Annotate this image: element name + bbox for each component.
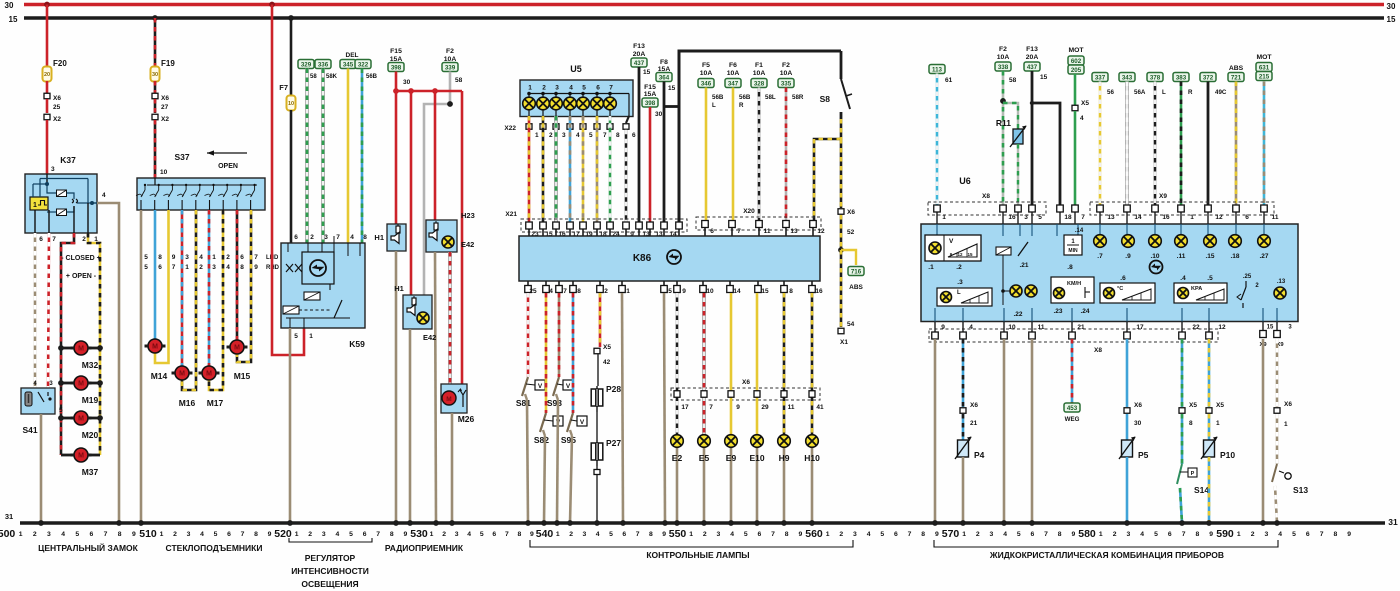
svg-text:M26: M26: [458, 414, 475, 424]
svg-text:7: 7: [709, 404, 713, 411]
svg-text:339: 339: [445, 65, 456, 72]
connector X9 top: [1090, 193, 1274, 215]
lamp module U5: [520, 64, 633, 117]
svg-text:27: 27: [161, 104, 169, 111]
svg-text:X6: X6: [742, 379, 750, 386]
svg-text:20: 20: [44, 72, 50, 78]
svg-text:11: 11: [788, 404, 795, 411]
svg-text:1: 1: [1216, 420, 1220, 427]
svg-text:L: L: [957, 290, 961, 296]
wire: [46, 81, 49, 93]
svg-text:22: 22: [1192, 324, 1200, 331]
wire F15: [649, 107, 652, 223]
wire S41 to bus: [40, 414, 43, 523]
wire F7 to K59: [290, 110, 293, 243]
warning lamp row U6: [1094, 235, 1271, 260]
svg-text:4: 4: [61, 531, 65, 538]
svg-text:6: 6: [894, 531, 898, 538]
svg-text:.14: .14: [1075, 228, 1084, 234]
wire: [841, 250, 855, 328]
wire: [1275, 486, 1277, 523]
svg-text:P28: P28: [606, 384, 621, 394]
wire U6-21 WEG: [1071, 339, 1074, 403]
svg-text:S41: S41: [22, 425, 37, 435]
pin label: [709, 404, 713, 411]
wire U5-5: [582, 116, 585, 223]
svg-text:6: 6: [363, 531, 367, 538]
svg-text:5: 5: [744, 531, 748, 538]
svg-text:56B: 56B: [739, 94, 751, 101]
wire: [962, 414, 965, 440]
svg-text:5: 5: [589, 132, 593, 139]
svg-text:1: 1: [430, 531, 434, 538]
section label windows: [166, 543, 263, 553]
svg-text:1: 1: [535, 132, 539, 139]
svg-text:6: 6: [632, 132, 636, 139]
svg-text:4: 4: [1003, 531, 1007, 538]
wire K86-2: [599, 293, 602, 347]
svg-text:5: 5: [1154, 531, 1158, 538]
svg-text:16: 16: [1162, 214, 1170, 221]
pin 4 label: [102, 192, 106, 199]
svg-text:X8: X8: [982, 193, 990, 200]
svg-text:X2: X2: [53, 116, 61, 123]
svg-text:10: 10: [160, 169, 168, 176]
svg-text:°C: °C: [1117, 286, 1123, 292]
wire: [1180, 488, 1182, 523]
code 378 wire: [1147, 73, 1166, 208]
svg-text:4: 4: [467, 531, 471, 538]
radio supply rail: [393, 88, 462, 107]
dimmer K59: [281, 236, 365, 349]
fuse F8: [656, 59, 676, 92]
switch S95: [561, 413, 587, 445]
svg-text:8: 8: [1189, 420, 1193, 427]
svg-text:1: 1: [160, 531, 164, 538]
svg-text:9: 9: [1071, 531, 1075, 538]
code 453 WEG: [1064, 403, 1080, 423]
label closed-open: [61, 255, 100, 280]
svg-text:.1: .1: [928, 264, 934, 271]
svg-text:X9: X9: [1159, 193, 1167, 200]
svg-text:3: 3: [1024, 214, 1028, 221]
svg-text:337: 337: [1095, 75, 1106, 82]
svg-text:9: 9: [736, 404, 740, 411]
svg-text:S95: S95: [561, 435, 576, 445]
svg-text:2: 2: [310, 234, 314, 241]
svg-text:29: 29: [761, 404, 769, 411]
wire: [525, 394, 528, 523]
svg-text:5: 5: [1292, 531, 1296, 538]
open arrow: [207, 150, 247, 170]
wire F13: [638, 67, 641, 223]
svg-text:10A: 10A: [997, 54, 1010, 61]
svg-text:ЖИДКОКРИСТАЛЛИЧЕСКАЯ КОМБИНАЦИ: ЖИДКОКРИСТАЛЛИЧЕСКАЯ КОМБИНАЦИЯ ПРИБОРОВ: [989, 550, 1224, 560]
wire: [543, 430, 545, 523]
switch S41: [21, 381, 63, 435]
svg-text:6: 6: [1031, 531, 1035, 538]
svg-text:58R: 58R: [792, 94, 804, 101]
svg-text:F13: F13: [633, 43, 645, 50]
svg-text:.15: .15: [1205, 253, 1214, 260]
svg-text:1: 1: [826, 531, 830, 538]
wire: [347, 69, 350, 244]
connector X6 p5: [1124, 402, 1142, 427]
wire H23 to M26: [448, 252, 452, 385]
pins U6 top right: [1097, 205, 1268, 224]
svg-text:9: 9: [798, 531, 802, 538]
switch S14: [1177, 464, 1209, 495]
wire to lamp E2: [674, 293, 680, 435]
lamps .22: [1001, 255, 1037, 318]
svg-text:10A: 10A: [753, 70, 766, 77]
svg-text:3: 3: [187, 531, 191, 538]
svg-text:4: 4: [1140, 531, 1144, 538]
svg-text:.3: .3: [957, 279, 963, 286]
bus junctions: [38, 520, 1280, 526]
connector X2: [152, 114, 169, 123]
wire to lamp H10: [809, 293, 815, 435]
svg-text:6: 6: [158, 264, 162, 271]
wire to S37: [155, 120, 168, 178]
svg-text:M32: M32: [82, 360, 99, 370]
svg-text:P10: P10: [1220, 450, 1235, 460]
svg-text:F2: F2: [782, 62, 790, 69]
svg-text:M: M: [446, 396, 451, 403]
svg-text:P5: P5: [1138, 450, 1149, 460]
svg-text:7: 7: [376, 531, 380, 538]
svg-text:MOT: MOT: [1068, 47, 1084, 54]
wire H1 to bus: [395, 251, 398, 523]
svg-text:56A: 56A: [1134, 89, 1146, 96]
wire lamp to bus: [703, 448, 706, 524]
svg-text:9: 9: [404, 531, 408, 538]
svg-text:ИНТЕНСИВНОСТИ: ИНТЕНСИВНОСТИ: [291, 566, 369, 576]
wire U5-2: [542, 116, 545, 223]
svg-text:ЦЕНТРАЛЬНЫЙ ЗАМОК: ЦЕНТРАЛЬНЫЙ ЗАМОК: [38, 542, 139, 553]
wire: [395, 91, 398, 224]
svg-text:205: 205: [1071, 67, 1082, 74]
svg-text:F1: F1: [755, 62, 763, 69]
svg-text:S14: S14: [1194, 485, 1209, 495]
svg-text:ABS: ABS: [849, 284, 863, 291]
svg-text:F6: F6: [729, 62, 737, 69]
wire: [1208, 414, 1211, 440]
svg-text:M14: M14: [151, 371, 168, 381]
wire U5-3: [554, 116, 558, 223]
svg-text:KM/H: KM/H: [1067, 281, 1081, 287]
resistor P28: [591, 384, 621, 412]
code 383 wire: [1173, 73, 1193, 208]
wire lamp to bus: [756, 448, 759, 524]
wire lamp to bus: [783, 448, 786, 524]
svg-text:590: 590: [1216, 528, 1234, 540]
svg-text:41: 41: [816, 404, 824, 411]
code 343 wire: [1119, 73, 1146, 208]
svg-text:9: 9: [682, 288, 686, 295]
svg-text:15A: 15A: [644, 91, 657, 98]
svg-text:8: 8: [616, 132, 620, 139]
svg-text:1: 1: [33, 202, 37, 209]
svg-text:V: V: [949, 238, 954, 245]
svg-text:4: 4: [569, 85, 573, 92]
top bus 15: [9, 15, 1396, 24]
svg-text:R11: R11: [996, 118, 1011, 128]
svg-text:2: 2: [33, 531, 37, 538]
label U6: [959, 176, 971, 186]
wire: [1074, 74, 1077, 105]
wire U6-15: [1262, 339, 1265, 523]
code 716 ABS: [848, 267, 864, 292]
svg-text:X6: X6: [970, 402, 978, 409]
svg-text:DEL: DEL: [346, 52, 359, 59]
pins U6 top left: [934, 205, 1079, 224]
section bracket lcd: [934, 540, 1278, 547]
switch S37: [136, 152, 265, 210]
svg-text:H10: H10: [804, 453, 820, 463]
wire K37-1 to motors: [88, 233, 100, 455]
svg-text:.4: .4: [1180, 275, 1186, 282]
pin labels X21: [531, 231, 677, 238]
svg-text:540: 540: [536, 528, 554, 540]
svg-text:L: L: [712, 102, 716, 109]
motor M20: [71, 411, 99, 440]
wire: [1017, 144, 1019, 208]
connector X8 top: [928, 193, 1046, 215]
svg-text:11: 11: [1038, 324, 1045, 331]
wire U6-22: [1181, 339, 1184, 407]
svg-text:8: 8: [158, 254, 162, 261]
label DEL: [346, 52, 359, 59]
wire F8: [663, 82, 666, 224]
svg-text:7: 7: [505, 531, 509, 538]
code 329: [298, 60, 314, 69]
svg-text:S37: S37: [174, 152, 189, 162]
fuse F2b: [778, 62, 804, 101]
svg-text:M20: M20: [82, 430, 99, 440]
section label radio: [385, 543, 464, 553]
svg-text:3: 3: [555, 85, 559, 92]
svg-text:1: 1: [295, 531, 299, 538]
svg-text:3: 3: [717, 531, 721, 538]
svg-text:E42: E42: [461, 240, 474, 249]
wire: [1208, 457, 1211, 523]
svg-text:MOT: MOT: [1256, 54, 1272, 61]
svg-text:1: 1: [1284, 421, 1288, 428]
svg-text:F20: F20: [53, 59, 67, 68]
wire lamp to bus: [811, 448, 814, 524]
svg-text:U6: U6: [959, 176, 971, 186]
wire: [597, 354, 599, 386]
wire F2b: [785, 88, 788, 224]
svg-text:6: 6: [1245, 214, 1249, 221]
svg-text:H23: H23: [461, 211, 475, 220]
svg-text:8: 8: [363, 234, 367, 241]
code 721 wire: [1228, 65, 1244, 207]
section label dimmer: [291, 553, 369, 589]
pin label: [761, 404, 769, 411]
svg-text:K86: K86: [633, 253, 652, 264]
svg-text:10A: 10A: [780, 70, 793, 77]
pins X20: [702, 221, 817, 237]
svg-text:F7: F7: [279, 83, 288, 92]
connector X5 mot: [1072, 100, 1089, 122]
wire: [1126, 457, 1129, 523]
motor M15: [227, 340, 251, 381]
pin labels: [942, 214, 1085, 221]
svg-text:5: 5: [144, 254, 148, 261]
svg-text:E10: E10: [749, 453, 764, 463]
svg-text:X6: X6: [1284, 401, 1292, 408]
svg-text:2: 2: [442, 531, 446, 538]
svg-text:8: 8: [789, 288, 793, 295]
svg-text:4: 4: [576, 132, 580, 139]
wire K86-5: [664, 293, 665, 523]
svg-text:10: 10: [1008, 324, 1016, 331]
lamp H9: [778, 435, 791, 463]
svg-text:329: 329: [301, 62, 312, 69]
svg-text:58: 58: [455, 77, 463, 84]
svg-text:10A: 10A: [727, 70, 740, 77]
svg-text:550: 550: [669, 528, 687, 540]
svg-text:9: 9: [941, 324, 945, 331]
svg-text:631: 631: [1259, 65, 1270, 72]
lamp H10: [804, 435, 820, 463]
svg-text:12: 12: [1218, 324, 1226, 331]
svg-text:7: 7: [603, 132, 607, 139]
wire: [154, 81, 157, 93]
wire K37-6 to S41: [34, 233, 37, 388]
svg-text:KPA: KPA: [1191, 286, 1202, 292]
svg-text:.25: .25: [1243, 274, 1252, 280]
svg-text:17: 17: [681, 404, 689, 411]
svg-text:9: 9: [935, 531, 939, 538]
svg-text:2: 2: [976, 531, 980, 538]
svg-text:3: 3: [455, 531, 459, 538]
code 631 wire: [1256, 54, 1272, 207]
svg-text:372: 372: [1203, 75, 1214, 82]
voltmeter gauge: [925, 235, 981, 271]
svg-text:2: 2: [173, 531, 177, 538]
svg-text:5: 5: [880, 531, 884, 538]
wire S37-9 to M14: [155, 210, 169, 363]
connector X8 bottom: [929, 329, 1218, 354]
svg-text:S8: S8: [820, 94, 831, 104]
svg-text:25: 25: [529, 288, 537, 295]
wire: [1276, 414, 1279, 464]
svg-text:11: 11: [764, 228, 771, 235]
wire: [570, 430, 572, 523]
svg-text:3: 3: [562, 132, 566, 139]
svg-text:58: 58: [310, 74, 317, 80]
svg-text:.8: .8: [1067, 264, 1073, 271]
svg-text:X6: X6: [161, 95, 169, 102]
switch S82: [534, 413, 563, 445]
svg-text:9: 9: [254, 264, 258, 271]
svg-text:1: 1: [1237, 531, 1241, 538]
svg-text:.18: .18: [1230, 253, 1239, 260]
svg-text:7: 7: [336, 234, 340, 241]
connector X21: [505, 211, 687, 232]
svg-text:M: M: [206, 371, 212, 378]
svg-text:8: 8: [577, 288, 581, 295]
svg-text:4: 4: [350, 234, 354, 241]
wire: [1000, 71, 1006, 207]
fuse F5: [698, 62, 724, 109]
pin label: [788, 404, 795, 411]
svg-text:5: 5: [214, 531, 218, 538]
svg-text:9: 9: [530, 531, 534, 538]
svg-text:E2: E2: [672, 453, 683, 463]
pin labels X20: [710, 228, 825, 235]
fuse F7: [279, 83, 295, 111]
motor chain links: [58, 345, 103, 455]
svg-text:MIN: MIN: [1068, 248, 1078, 254]
svg-text:7: 7: [1044, 531, 1048, 538]
svg-text:9: 9: [662, 531, 666, 538]
svg-text:X5: X5: [1189, 402, 1197, 409]
svg-text:215: 215: [1259, 74, 1270, 81]
svg-text:.21: .21: [1019, 262, 1028, 269]
svg-text:21: 21: [1077, 324, 1085, 331]
svg-text:1: 1: [942, 214, 946, 221]
svg-text:7: 7: [636, 531, 640, 538]
section bracket lamps: [530, 540, 853, 547]
svg-text:15: 15: [1267, 325, 1274, 331]
svg-text:345: 345: [343, 62, 354, 69]
svg-text:2: 2: [569, 531, 573, 538]
svg-text:2: 2: [542, 85, 546, 92]
svg-text:580: 580: [1078, 528, 1096, 540]
svg-text:S81: S81: [516, 398, 531, 408]
svg-text:1: 1: [212, 254, 216, 261]
svg-text:X8: X8: [1094, 347, 1102, 354]
fuse F15 radio: [388, 48, 411, 86]
wire to lamp E9: [728, 293, 734, 435]
svg-text:6: 6: [710, 228, 714, 235]
svg-text:30: 30: [403, 79, 411, 86]
svg-text:1: 1: [689, 531, 693, 538]
svg-text:СТЕКЛОПОДЪЕМНИКИ: СТЕКЛОПОДЪЕМНИКИ: [166, 543, 263, 553]
svg-text:8: 8: [254, 531, 258, 538]
pin labels K86 bottom: [529, 288, 823, 295]
fuse F2c: [995, 46, 1017, 84]
svg-text:378: 378: [1150, 75, 1161, 82]
svg-text:2: 2: [308, 531, 312, 538]
motor M14: [145, 339, 168, 381]
svg-text:8: 8: [921, 531, 925, 538]
svg-text:6: 6: [596, 85, 600, 92]
svg-text:.11: .11: [1177, 253, 1186, 260]
svg-text:6: 6: [227, 531, 231, 538]
svg-text:КОНТРОЛЬНЫЕ ЛАМПЫ: КОНТРОЛЬНЫЕ ЛАМПЫ: [646, 550, 749, 560]
svg-text:5: 5: [480, 531, 484, 538]
svg-text:X5: X5: [603, 344, 611, 351]
svg-text:58K: 58K: [326, 74, 338, 80]
svg-text:8: 8: [1334, 531, 1338, 538]
svg-text:M19: M19: [82, 395, 99, 405]
svg-text:15: 15: [761, 288, 769, 295]
pins K86 bottom: [525, 281, 816, 293]
wire: [154, 99, 157, 113]
svg-text:2: 2: [604, 288, 608, 295]
svg-text:H1: H1: [394, 284, 404, 293]
svg-text:437: 437: [1027, 64, 1038, 71]
motor M37: [71, 448, 99, 477]
svg-text:P: P: [1191, 471, 1195, 477]
svg-text:4: 4: [200, 531, 204, 538]
svg-text:25: 25: [53, 104, 61, 111]
